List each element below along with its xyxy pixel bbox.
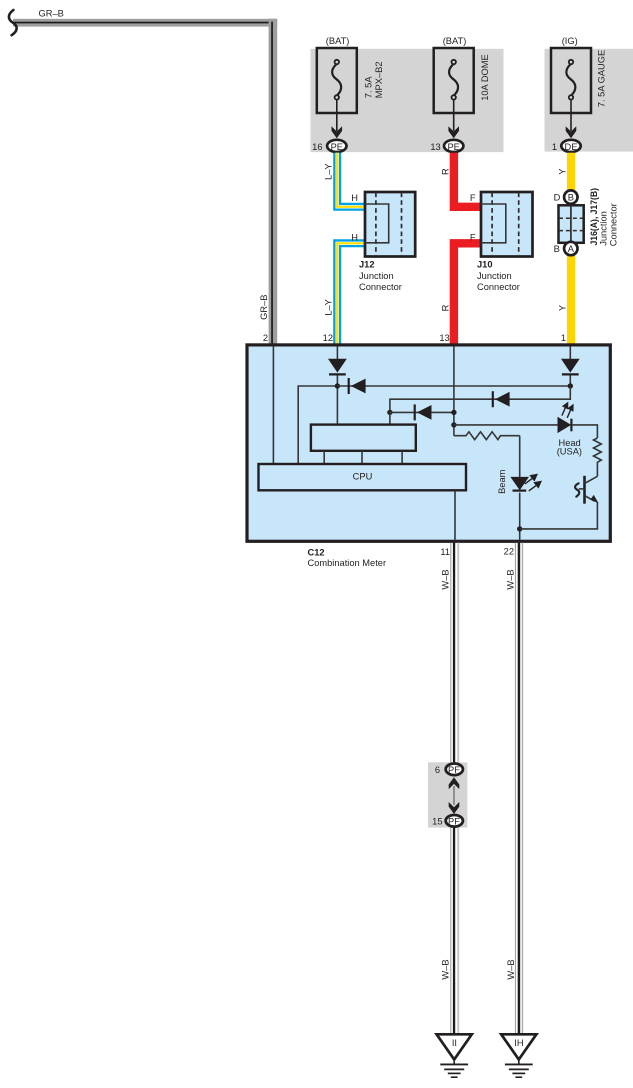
svg-text:10A DOME: 10A DOME	[480, 54, 490, 101]
wire bus line 2	[390, 387, 570, 413]
svg-text:CPU: CPU	[353, 472, 373, 482]
fuse 7.5A MPX-B2	[317, 48, 357, 113]
wire GR-B vertical to meter pin 2	[269, 19, 278, 347]
svg-text:L–Y: L–Y	[323, 299, 333, 316]
svg-text:F: F	[470, 193, 476, 203]
wire node 12 branch to CPU	[298, 386, 337, 464]
wire head LED to resistor R2	[573, 425, 598, 438]
ground II	[437, 1034, 472, 1059]
wire Y from fuse to J16	[567, 153, 575, 191]
node head branch	[451, 422, 456, 427]
svg-text:GR–B: GR–B	[259, 295, 269, 320]
svg-text:Connector: Connector	[359, 282, 402, 292]
wire Q1 base with break symbol	[579, 488, 585, 490]
LED head (USA)	[558, 417, 572, 433]
wire bus line 3	[390, 411, 454, 413]
svg-text:16: 16	[312, 142, 322, 152]
svg-text:2: 2	[263, 333, 268, 343]
transistor Q1	[583, 476, 586, 504]
svg-text:B: B	[554, 244, 560, 254]
junction connector J10	[481, 192, 533, 257]
svg-text:6: 6	[435, 765, 440, 775]
break symbol (wire continues)	[9, 10, 17, 35]
wire L-Y from fuse to J12	[337, 153, 364, 207]
connector DE pin 1	[561, 140, 580, 152]
rectifier block	[311, 425, 416, 451]
svg-text:W–B: W–B	[440, 569, 450, 589]
svg-text:IH: IH	[514, 1038, 523, 1048]
connector PF gray box	[428, 762, 467, 827]
wire W-B pin 22	[515, 543, 523, 1034]
svg-text:H: H	[351, 193, 358, 203]
svg-text:13: 13	[430, 142, 440, 152]
diode D1 (pin 12)	[328, 359, 347, 373]
junction connector J16(A), J17(B)	[559, 205, 584, 243]
gray highlight band (BAT fuses)	[311, 49, 504, 152]
resistor R2 (vertical)	[594, 438, 602, 476]
connector PE pin 13	[444, 140, 463, 152]
wire W-B pin 11 lower	[450, 827, 459, 1033]
svg-text:R: R	[441, 168, 451, 175]
wire pin 12 diode to rectifier block	[336, 376, 338, 425]
svg-text:15: 15	[432, 816, 442, 826]
node line3/pin13	[451, 410, 456, 415]
connector PE pin 16	[327, 140, 346, 152]
arrow from fuse 3 to connector	[570, 100, 572, 131]
svg-text:(USA): (USA)	[557, 446, 582, 456]
diode D4 (bus line 2)	[492, 391, 494, 407]
arrow from fuse 2 to connector	[453, 100, 455, 131]
svg-text:(BAT): (BAT)	[443, 36, 467, 46]
LED beam emission arrows	[525, 475, 541, 491]
svg-text:MPX–B2: MPX–B2	[374, 61, 384, 98]
svg-text:B: B	[568, 192, 574, 202]
node line1/pin1	[568, 383, 573, 388]
svg-text:22: 22	[504, 547, 514, 557]
CPU block	[259, 464, 467, 490]
node pin 12 junction	[335, 383, 340, 388]
svg-text:PE: PE	[331, 142, 343, 152]
wire L-Y from J12 to meter pin 12	[337, 243, 364, 346]
diode D2 (pin 1)	[561, 359, 580, 373]
wire CPU to pin 11	[454, 490, 456, 539]
svg-text:W–B: W–B	[506, 959, 516, 979]
svg-text:PE: PE	[447, 142, 459, 152]
svg-text:Y: Y	[557, 169, 567, 175]
svg-text:GR–B: GR–B	[39, 8, 64, 18]
fuse 10A DOME	[434, 48, 474, 113]
svg-text:Connector: Connector	[477, 282, 520, 292]
svg-text:PF: PF	[448, 816, 460, 826]
LED head emission arrows	[562, 403, 573, 418]
connector pair arrows	[449, 777, 460, 789]
combination meter C12 box	[247, 345, 610, 541]
svg-text:F: F	[470, 233, 476, 243]
svg-text:Connector: Connector	[609, 203, 619, 246]
gray highlight band (IG fuse)	[545, 49, 633, 152]
svg-text:R: R	[441, 304, 451, 311]
wire bus line 1	[337, 385, 570, 387]
svg-text:W–B: W–B	[441, 959, 451, 979]
svg-text:11: 11	[440, 547, 450, 557]
svg-text:7. 5A: 7. 5A	[363, 76, 373, 99]
svg-text:J12: J12	[359, 259, 375, 269]
svg-text:Junction: Junction	[359, 271, 394, 281]
svg-text:Beam: Beam	[497, 469, 507, 494]
wire resistor to beam LED	[519, 436, 521, 477]
arrow from fuse 1 to connector	[336, 100, 338, 131]
svg-text:7. 5A GAUGE: 7. 5A GAUGE	[596, 50, 606, 107]
node line3 left	[387, 410, 392, 415]
diode D5 (bus line 3)	[414, 404, 416, 420]
wire pin 13 entry down	[453, 347, 455, 436]
diode D3 (bus line 1)	[348, 378, 350, 394]
wire pin 1 entry	[569, 347, 571, 360]
wire pin 1 diode down	[569, 376, 571, 387]
fuse 7.5A GAUGE	[551, 48, 591, 113]
svg-text:12: 12	[323, 333, 333, 343]
connector ring B (pin D)	[564, 190, 577, 203]
wire line3 branch down to rectifier block	[389, 412, 391, 424]
svg-text:DE: DE	[565, 142, 578, 152]
wires rectifier block to CPU	[323, 451, 325, 464]
ground IH	[501, 1034, 536, 1059]
svg-text:1: 1	[552, 142, 557, 152]
wire R from fuse to J10	[454, 153, 482, 207]
resistor R1 (horizontal)	[454, 432, 520, 440]
svg-text:13: 13	[439, 333, 449, 343]
wire R from J10 to meter pin 13	[454, 243, 482, 346]
svg-text:(BAT): (BAT)	[326, 36, 350, 46]
node emitter return	[517, 526, 522, 531]
connector PF pin 15	[446, 815, 463, 827]
wire pin 2 to CPU	[272, 347, 274, 465]
svg-text:(IG): (IG)	[562, 36, 578, 46]
svg-text:L–Y: L–Y	[323, 163, 333, 180]
connector PF pin 6	[446, 764, 463, 776]
svg-text:1: 1	[561, 333, 566, 343]
wire Y from J16 to meter pin 1	[567, 255, 575, 346]
junction connector J12	[365, 192, 415, 257]
svg-text:Junction: Junction	[599, 211, 609, 246]
svg-text:Junction: Junction	[477, 271, 512, 281]
LED beam	[510, 477, 529, 490]
svg-text:W–B: W–B	[506, 569, 516, 589]
wire pin 12 entry	[336, 347, 338, 360]
svg-text:H: H	[351, 233, 358, 243]
wire beam LED to pin 22	[519, 493, 521, 540]
connector ring A (pin B)	[564, 242, 577, 255]
wire to head LED	[454, 424, 558, 426]
svg-text:C12: C12	[308, 548, 325, 558]
wire W-B pin 11 upper	[450, 543, 459, 763]
wire emitter return	[520, 502, 598, 529]
svg-text:Y: Y	[557, 305, 567, 311]
svg-text:PF: PF	[448, 765, 460, 775]
svg-text:A: A	[568, 244, 575, 254]
svg-text:J10: J10	[477, 259, 493, 269]
wire GR-B horizontal (top)	[13, 19, 277, 27]
svg-text:II: II	[452, 1038, 457, 1048]
svg-text:Combination Meter: Combination Meter	[308, 558, 387, 568]
svg-text:D: D	[554, 192, 561, 202]
